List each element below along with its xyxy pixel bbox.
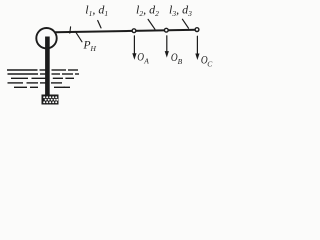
water surface hatching — [7, 70, 79, 87]
water line row 5 — [14, 86, 27, 88]
leader slash for l3,d3 — [182, 19, 188, 28]
tick on pipe near pump — [69, 27, 72, 33]
discharge pipe (main horizontal line) — [55, 30, 197, 33]
leader slash for l2,d2 — [148, 19, 155, 29]
node A (junction circle) — [132, 29, 136, 33]
suction pipe (vertical) — [45, 37, 50, 96]
svg-text:B: B — [178, 57, 183, 66]
water line row 2 — [8, 73, 39, 75]
water line row 1 — [7, 69, 38, 71]
water line row 3 — [11, 77, 28, 79]
strainer (foot valve) — [42, 95, 59, 105]
arrow Q_A (downward) — [132, 36, 136, 60]
leader line to P_H — [75, 31, 82, 41]
arrow Q_C (downward) — [195, 36, 199, 60]
water line row 4 — [8, 82, 24, 84]
leader slash for l1,d1 — [98, 21, 101, 28]
node C (end circle) — [195, 28, 199, 32]
arrow Q_B (downward) — [165, 36, 169, 58]
svg-text:A: A — [143, 56, 149, 65]
pump U1 (circle symbol) — [36, 28, 56, 48]
node B (junction circle) — [164, 28, 168, 32]
